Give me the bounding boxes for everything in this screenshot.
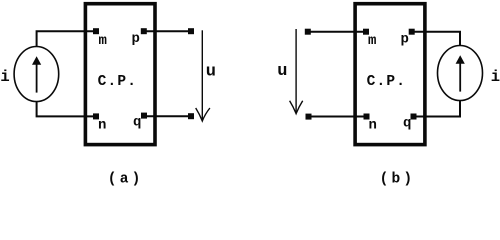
external node bottom (a) xyxy=(188,113,194,119)
svg-text:(a): (a) xyxy=(108,172,144,188)
wire external node to m (b) xyxy=(308,31,366,33)
svg-text:q: q xyxy=(133,115,141,131)
terminal q (a) xyxy=(141,113,147,119)
wire source-bottom to q (b) xyxy=(414,100,461,116)
svg-text:p: p xyxy=(132,31,140,47)
svg-text:m: m xyxy=(368,33,376,49)
svg-text:n: n xyxy=(369,118,377,134)
wire q to external node (a) xyxy=(144,115,191,117)
terminal m (b) xyxy=(363,29,369,35)
svg-text:i: i xyxy=(0,68,9,86)
terminal n (a) xyxy=(93,113,99,119)
terminal n (b) xyxy=(364,114,370,120)
svg-text:u: u xyxy=(277,62,287,81)
svg-text:p: p xyxy=(401,31,409,47)
external node bottom (b) xyxy=(306,114,312,120)
current source i (b) xyxy=(438,46,483,101)
terminal p (a) xyxy=(141,28,147,34)
svg-text:(b): (b) xyxy=(380,172,416,188)
wire p to source-top (b) xyxy=(412,32,460,46)
svg-text:u: u xyxy=(206,62,216,81)
terminal q (b) xyxy=(411,114,417,120)
external node top (a) xyxy=(188,28,194,34)
external node top (b) xyxy=(305,29,311,35)
voltage arrow u (b) xyxy=(290,29,303,114)
quadripole box (b) xyxy=(355,4,425,145)
svg-text:m: m xyxy=(99,33,107,49)
svg-text:C.P.: C.P. xyxy=(367,74,407,90)
terminal p (b) xyxy=(409,29,415,35)
svg-text:C.P.: C.P. xyxy=(98,74,138,90)
quadripole box (a) xyxy=(85,4,155,145)
svg-text:q: q xyxy=(403,116,411,132)
current source i (a) xyxy=(14,47,59,102)
svg-text:n: n xyxy=(98,118,106,134)
svg-text:i: i xyxy=(491,68,500,86)
wire source-top to m (a) xyxy=(37,31,96,47)
wire p to external node (a) xyxy=(144,30,191,32)
wire source-bottom to n (a) xyxy=(37,101,96,116)
wire external node to n (b) xyxy=(309,116,367,118)
voltage arrow u (a) xyxy=(196,30,210,121)
terminal m (a) xyxy=(93,28,99,34)
